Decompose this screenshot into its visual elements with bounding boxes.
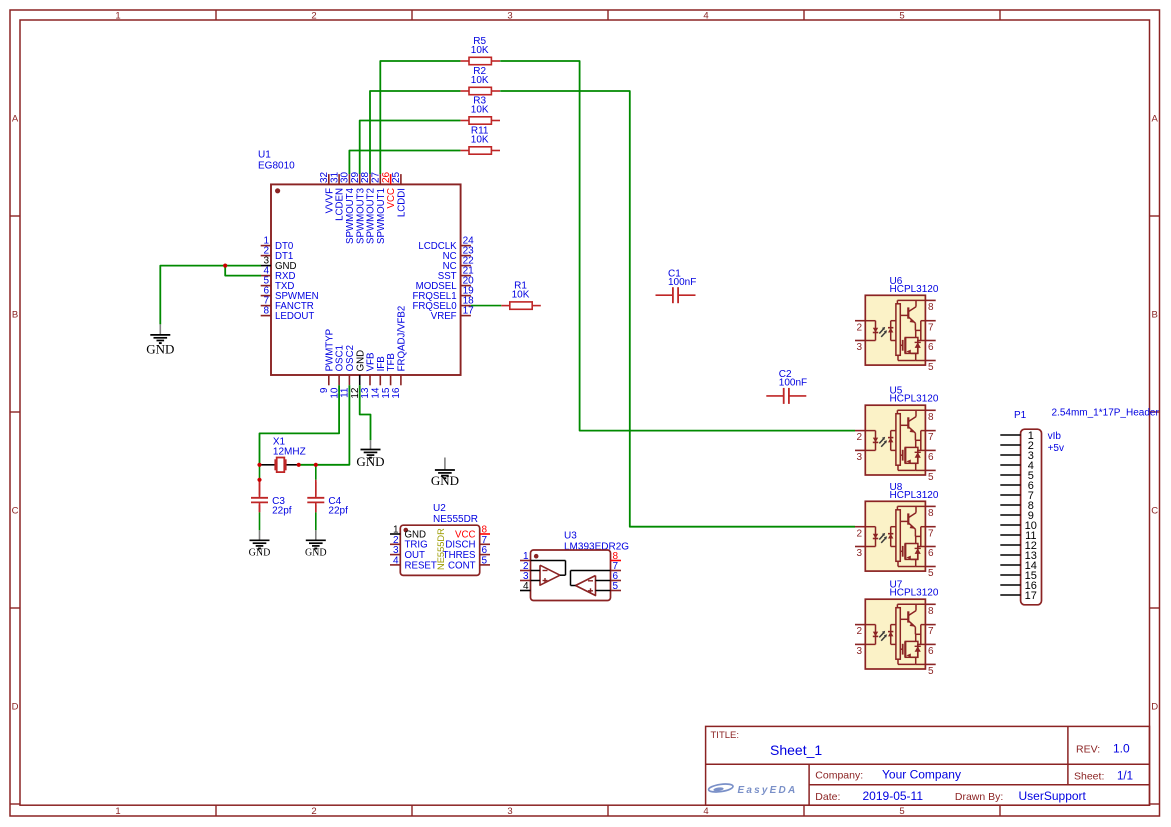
U1 pin 23 NC <box>461 255 471 257</box>
svg-text:CONT: CONT <box>448 560 476 571</box>
svg-text:3: 3 <box>857 548 863 559</box>
svg-text:U2: U2 <box>433 503 446 514</box>
junction at pin3 wire <box>223 264 227 268</box>
svg-text:8: 8 <box>928 412 934 423</box>
junction X1 right inner <box>297 463 301 467</box>
svg-text:6: 6 <box>928 646 934 657</box>
svg-text:2: 2 <box>311 806 316 817</box>
U2 pin 3 OUT / pin 6 THRES <box>390 554 400 556</box>
svg-text:2: 2 <box>857 626 863 637</box>
svg-text:3: 3 <box>857 342 863 353</box>
svg-text:2: 2 <box>857 432 863 443</box>
svg-text:8: 8 <box>928 302 934 313</box>
wire C4 to ground <box>315 505 317 513</box>
wire R2 right to U8 pin2 <box>500 91 855 527</box>
U1 pin 27 SPWMOUT1 <box>379 174 381 184</box>
svg-text:A: A <box>1152 114 1159 125</box>
svg-text:7: 7 <box>928 528 934 539</box>
svg-text:vIb: vIb <box>1048 431 1062 442</box>
svg-text:1: 1 <box>115 806 120 817</box>
svg-text:B: B <box>12 310 18 321</box>
svg-text:GND: GND <box>431 473 459 488</box>
svg-text:UserSupport: UserSupport <box>1019 789 1087 803</box>
junction X1 right outer <box>314 463 318 467</box>
svg-text:LCDDI: LCDDI <box>397 188 408 217</box>
U1 pin 9 PWMTYP <box>328 375 330 385</box>
svg-text:2019-05-11: 2019-05-11 <box>863 789 924 803</box>
U2 pin 4 RESET / pin 5 CONT <box>390 564 400 566</box>
svg-text:17: 17 <box>1025 590 1037 602</box>
svg-text:10K: 10K <box>512 290 530 301</box>
svg-text:7: 7 <box>928 432 934 443</box>
U5 pin 5 <box>925 469 935 471</box>
svg-text:1/1: 1/1 <box>1117 770 1133 782</box>
U2 pin 2 TRIG / pin 7 DISCH <box>390 543 400 545</box>
svg-text:+5v: +5v <box>1048 443 1064 454</box>
wire R5 right to U5 pin2 <box>500 61 855 431</box>
crystal X1 12MHZ <box>261 436 306 472</box>
svg-text:HCPL3120: HCPL3120 <box>890 588 939 599</box>
ground symbol isolated <box>431 458 459 489</box>
U7 pin 7 <box>925 624 935 626</box>
svg-text:25: 25 <box>391 171 402 183</box>
U1 pin 7 FANCTR <box>261 305 271 307</box>
U7 pin 6 <box>925 643 935 645</box>
capacitor C3 22pf <box>251 482 292 516</box>
P1 pin 9 <box>1000 514 1020 516</box>
U8 pin 7 <box>925 526 935 528</box>
U1 pin 3 GND <box>261 265 271 267</box>
U1 pin 11 OSC2 <box>348 375 350 385</box>
P1 pin 17 <box>1000 594 1020 596</box>
U1 pin 15 TFB <box>390 375 392 385</box>
svg-text:B: B <box>1152 310 1158 321</box>
P1 pin 1 <box>1000 434 1020 436</box>
resistor R1 10K <box>501 281 541 310</box>
U1 pin 19 FRQSEL1 <box>461 295 471 297</box>
U1 pin 1 DT0 <box>261 245 271 247</box>
U1 pin 17 VREF <box>461 315 471 317</box>
P1 pin 3 <box>1000 454 1020 456</box>
U1 pin 29 SPWMOUT3 <box>359 174 361 184</box>
P1 pin 16 <box>1000 584 1020 586</box>
capacitor C1 100nF <box>656 269 697 304</box>
svg-text:7: 7 <box>928 626 934 637</box>
U1 pin 10 OSC1 <box>338 375 340 385</box>
U7 pin 5 <box>925 663 935 665</box>
svg-text:5: 5 <box>928 362 934 373</box>
U1 pin 16 FRQADJ/VFB2 <box>400 375 402 385</box>
U1 pin 21 SST <box>461 275 471 277</box>
U1 pin 13 VFB <box>369 375 371 385</box>
P1 pin 15 <box>1000 574 1020 576</box>
svg-text:TITLE:: TITLE: <box>711 730 740 741</box>
U1 pin 2 DT1 <box>261 255 271 257</box>
svg-text:4: 4 <box>393 555 399 566</box>
U1 pin 28 SPWMOUT2 <box>369 174 371 184</box>
svg-text:5: 5 <box>928 666 934 677</box>
ground symbol left <box>146 324 174 356</box>
svg-text:100nF: 100nF <box>779 378 807 389</box>
U1 pin 6 SPWMEN <box>261 295 271 297</box>
U6 pin 7 <box>925 320 935 322</box>
svg-text:D: D <box>1151 702 1158 713</box>
svg-text:Date:: Date: <box>815 791 840 803</box>
IC U1 EG8010 <box>258 150 474 399</box>
svg-text:2: 2 <box>857 322 863 333</box>
U6 pin 5 <box>925 360 935 362</box>
svg-text:16: 16 <box>391 387 402 399</box>
wire U1 pin10 OSC1 to X1 left <box>260 385 340 465</box>
svg-text:U3: U3 <box>564 531 577 542</box>
svg-text:100nF: 100nF <box>668 277 696 288</box>
svg-text:2: 2 <box>311 10 316 21</box>
U8 pin 2 <box>855 526 865 528</box>
wire R5 left to U1 pin27 <box>380 61 460 174</box>
U5 pin 6 <box>925 449 935 451</box>
svg-text:4: 4 <box>523 581 529 592</box>
wire R11 left to U1 pin30 <box>349 151 460 175</box>
P1 pin 13 <box>1000 554 1020 556</box>
svg-text:NE555DR: NE555DR <box>433 514 478 525</box>
U8 pin 5 <box>925 566 935 568</box>
U6 pin 3 <box>855 340 865 342</box>
U1 pin 30 SPWMOUT4 <box>348 174 350 184</box>
U1 pin 18 FRQSEL0 <box>461 305 471 307</box>
svg-text:5: 5 <box>613 581 619 592</box>
U1 pin 12 GND <box>359 375 361 385</box>
P1 pin 5 <box>1000 474 1020 476</box>
U1 pin 14 IFB <box>379 375 381 385</box>
U5 pin 3 <box>855 449 865 451</box>
U7 pin 8 <box>925 603 935 605</box>
svg-text:10K: 10K <box>471 105 489 116</box>
svg-text:GND: GND <box>249 548 271 559</box>
svg-text:VREF: VREF <box>431 311 457 322</box>
svg-text:3: 3 <box>507 806 512 817</box>
P1 pin 7 <box>1000 494 1020 496</box>
connector P1 2.54mm_1*17P_Header <box>1000 407 1159 605</box>
svg-text:D: D <box>12 702 19 713</box>
U3 pin 4 / pin 5 <box>520 590 531 592</box>
wire X1 right node down to C4 <box>315 465 317 480</box>
svg-text:C: C <box>1151 506 1158 517</box>
wire R2 left to U1 pin28 <box>370 91 460 174</box>
P1 pin 8 <box>1000 504 1020 506</box>
resistor R2 10K <box>460 66 500 95</box>
svg-text:10K: 10K <box>471 75 489 86</box>
wire U1 pin18 FRQSEL0 to R1 <box>471 305 501 307</box>
U3 pin 3 / pin 6 <box>520 580 531 582</box>
resistor R11 10K <box>460 126 500 155</box>
svg-text:Company:: Company: <box>815 770 863 782</box>
svg-text:6: 6 <box>928 548 934 559</box>
U1 pin 24 LCDCLK <box>461 245 471 247</box>
U8 pin 6 <box>925 546 935 548</box>
U1 pin 22 NC <box>461 265 471 267</box>
svg-text:5: 5 <box>899 806 904 817</box>
svg-text:4: 4 <box>703 806 708 817</box>
optocoupler U7 HCPL3120 <box>855 580 939 677</box>
svg-text:7: 7 <box>928 322 934 333</box>
optocoupler U8 HCPL3120 <box>855 482 939 579</box>
svg-text:5: 5 <box>899 10 904 21</box>
svg-text:6: 6 <box>928 452 934 463</box>
svg-text:6: 6 <box>928 342 934 353</box>
U6 pin 8 <box>925 299 935 301</box>
U1 pin 8 LEDOUT <box>261 315 271 317</box>
svg-text:2: 2 <box>857 528 863 539</box>
wire R3 left to U1 pin29 <box>360 121 461 175</box>
P1 pin 11 <box>1000 534 1020 536</box>
U1 pin 32 VVVF <box>328 174 330 184</box>
svg-text:C: C <box>12 506 19 517</box>
svg-text:U1: U1 <box>258 150 271 161</box>
svg-text:GND: GND <box>356 454 384 469</box>
svg-text:EG8010: EG8010 <box>258 161 295 172</box>
U2 pin 1 GND / pin 8 VCC <box>390 533 400 535</box>
U7 pin 2 <box>855 624 865 626</box>
IC U2 NE555DR <box>390 503 490 575</box>
svg-text:GND: GND <box>146 341 174 356</box>
svg-text:3: 3 <box>507 10 512 21</box>
svg-text:FRQADJ/VFB2: FRQADJ/VFB2 <box>397 306 408 372</box>
svg-text:3: 3 <box>857 452 863 463</box>
optocoupler U5 HCPL3120 <box>855 386 939 483</box>
svg-text:HCPL3120: HCPL3120 <box>890 490 939 501</box>
P1 pin 10 <box>1000 524 1020 526</box>
IC U3 LM393EDR2G <box>520 531 629 601</box>
svg-text:Sheet:: Sheet: <box>1074 770 1104 782</box>
capacitor C4 22pf <box>307 482 348 516</box>
svg-text:HCPL3120: HCPL3120 <box>890 394 939 405</box>
junction X1 left <box>257 463 261 467</box>
wire U1 pin12 GND to ground <box>360 385 371 440</box>
svg-text:P1: P1 <box>1014 410 1027 421</box>
U6 pin 2 <box>855 320 865 322</box>
U1 pin 25 LCDDI <box>400 174 402 184</box>
resistor R3 10K <box>460 96 500 125</box>
svg-text:12MHZ: 12MHZ <box>273 447 306 458</box>
U8 pin 8 <box>925 505 935 507</box>
wire U1 pin11 OSC2 to X1 right <box>299 385 350 465</box>
U1 pin 26 VCC <box>390 174 392 184</box>
svg-text:4: 4 <box>703 10 708 21</box>
wire C3 to ground <box>259 505 261 513</box>
U3 pin 2 / pin 7 <box>520 570 531 572</box>
resistor R5 10K <box>460 36 500 65</box>
P1 pin 12 <box>1000 544 1020 546</box>
svg-text:RESET: RESET <box>405 560 437 571</box>
wire X1 left node down to C3 <box>259 465 261 480</box>
svg-text:Sheet_1: Sheet_1 <box>770 742 822 758</box>
U8 pin 3 <box>855 546 865 548</box>
U7 pin 3 <box>855 643 865 645</box>
svg-text:17: 17 <box>463 306 475 317</box>
svg-text:1.0: 1.0 <box>1113 742 1130 756</box>
svg-text:5: 5 <box>928 568 934 579</box>
U1 pin 4 RXD <box>261 275 271 277</box>
svg-text:Drawn By:: Drawn By: <box>955 791 1003 803</box>
capacitor C2 100nF <box>766 369 807 404</box>
U6 pin 6 <box>925 340 935 342</box>
svg-text:NE555DR: NE555DR <box>436 528 446 570</box>
ground symbol under C3 <box>249 530 271 558</box>
svg-text:8: 8 <box>928 508 934 519</box>
svg-text:REV:: REV: <box>1076 744 1100 756</box>
P1 pin 2 <box>1000 444 1020 446</box>
svg-text:8: 8 <box>928 606 934 617</box>
P1 pin 4 <box>1000 464 1020 466</box>
junction X1 left lower <box>257 478 261 482</box>
U1 pin 5 TXD <box>261 285 271 287</box>
svg-text:5: 5 <box>482 555 488 566</box>
title block <box>706 726 1150 805</box>
ground symbol middle <box>356 440 384 469</box>
P1 pin 14 <box>1000 564 1020 566</box>
svg-text:5: 5 <box>928 472 934 483</box>
wire GND net from U1 pin3/pin4 <box>160 266 261 325</box>
svg-text:HCPL3120: HCPL3120 <box>890 284 939 295</box>
svg-text:10K: 10K <box>471 135 489 146</box>
svg-text:Your Company: Your Company <box>882 768 961 782</box>
U5 pin 2 <box>855 430 865 432</box>
U5 pin 7 <box>925 430 935 432</box>
P1 pin 6 <box>1000 484 1020 486</box>
svg-text:10K: 10K <box>471 45 489 56</box>
U1 pin 31 LCDEN <box>338 174 340 184</box>
svg-text:2.54mm_1*17P_Header: 2.54mm_1*17P_Header <box>1052 407 1160 418</box>
U3 pin 1 / pin 8 <box>520 560 531 562</box>
ground symbol under C4 <box>305 530 327 558</box>
svg-text:LEDOUT: LEDOUT <box>275 311 314 322</box>
U1 pin 20 MODSEL <box>461 285 471 287</box>
svg-text:1: 1 <box>115 10 120 21</box>
svg-text:8: 8 <box>263 306 269 317</box>
wire U1 pin4 branch <box>225 266 261 276</box>
svg-text:A: A <box>12 114 19 125</box>
svg-text:22pf: 22pf <box>328 506 348 517</box>
optocoupler U6 HCPL3120 <box>855 276 939 373</box>
svg-text:EasyEDA: EasyEDA <box>738 785 798 796</box>
svg-text:3: 3 <box>857 646 863 657</box>
U5 pin 8 <box>925 409 935 411</box>
svg-text:GND: GND <box>305 548 327 559</box>
svg-text:22pf: 22pf <box>272 506 292 517</box>
